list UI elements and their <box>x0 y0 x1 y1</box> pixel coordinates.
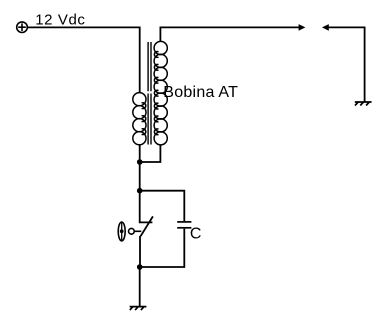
switch upper lead and fixed contact <box>140 191 153 223</box>
ground (bottom) <box>130 307 147 311</box>
transformer core <box>148 42 151 145</box>
transformer primary winding <box>133 93 146 145</box>
switch lower lead <box>139 236 141 267</box>
ground (right) <box>355 102 372 106</box>
wire secondary bottom to junction <box>140 145 161 162</box>
node junction 2 <box>137 188 143 194</box>
wire spark gap to right ground <box>328 27 364 101</box>
wire capacitor bottom to junction 3 <box>140 229 185 267</box>
transformer secondary winding <box>154 41 167 144</box>
capacitor C plates <box>177 222 191 228</box>
svg-text:C: C <box>190 225 202 242</box>
switch blade <box>141 216 153 236</box>
wire primary bottom through junction <box>139 145 141 191</box>
switch actuator link <box>134 230 141 232</box>
node junction 1 <box>137 159 143 165</box>
cam actuator <box>118 222 125 241</box>
node junction 3 <box>137 264 143 270</box>
wire 12Vdc to transformer primary top <box>27 27 139 92</box>
svg-text:12 Vdc: 12 Vdc <box>35 12 85 29</box>
wire secondary top to spark gap <box>160 27 299 41</box>
spark gap left electrode (arrow) <box>299 24 306 31</box>
svg-text:Bobina AT: Bobina AT <box>163 84 238 101</box>
wire junction 3 to ground <box>139 267 141 307</box>
terminal +12V <box>17 22 28 33</box>
switch actuator rod circle <box>129 228 135 234</box>
wire junction 2 to capacitor <box>140 191 185 221</box>
spark gap right electrode (arrow) <box>322 24 329 31</box>
